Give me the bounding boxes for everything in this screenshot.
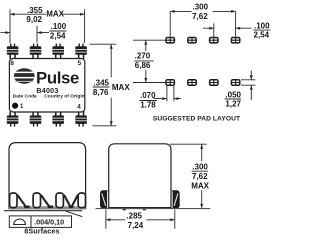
front view body [9,143,86,209]
side view body [109,144,171,208]
svg-text:.300: .300 [193,3,209,12]
pad row 2 pad 3 [210,80,218,85]
svg-text:.004/0,10: .004/0,10 [34,218,64,227]
bottom row pin 1 [7,112,19,127]
bottom row pin 4 [75,112,87,127]
top row pin 4 (pin 5) [75,44,87,59]
top row pin 2 [30,44,42,59]
pin 1 dot [12,103,18,109]
dim .070 fraction bar [140,100,158,102]
dim .345/8,76 MAX extension lines [90,44,117,126]
svg-text:1: 1 [20,103,24,110]
svg-text:MAX: MAX [46,9,64,18]
svg-text:2,54: 2,54 [50,31,66,40]
front leads 3-4 shared foot [69,206,73,209]
svg-text:.050: .050 [225,90,241,99]
side view right lead [171,190,180,208]
svg-text:2,54: 2,54 [254,31,270,40]
top view body [9,59,84,113]
dim .285/7,24 extension lines [106,210,175,229]
dim .100/2,54 arrows [1,32,50,34]
flatness leader diagonal [66,211,82,216]
svg-text:7,62: 7,62 [192,12,208,21]
svg-text:1,27: 1,27 [225,99,241,108]
dim .355/9,02 MAX extension lines [10,9,85,43]
pad row 1 pad 4 [231,38,239,43]
dim .050 fraction bar [225,98,241,100]
bottom row pin 3 [52,112,64,127]
svg-text:.285: .285 [126,212,142,221]
front lead 3 diagonal [64,195,70,207]
svg-text:Date Code: Date Code [13,93,37,99]
dim .345 fraction bar [93,86,110,88]
dim .050 arrows [250,71,252,101]
front lead 2 foot [48,206,53,209]
dim .270 fraction bar [134,60,154,62]
dim .070/1.78 extension lines [167,86,174,102]
dim .355/9,02 MAX dimension line with arrows [10,13,85,15]
front lead 1 bar [10,193,17,208]
svg-text:.355: .355 [27,6,43,15]
pad row 1 pad 2 [188,38,196,43]
dim .270/6,86 extension lines [133,40,166,82]
side seating plane line [96,208,211,210]
pad row 2 pad 2 [188,80,196,85]
svg-text:.270: .270 [135,51,151,60]
svg-text:8: 8 [10,60,14,67]
svg-text:7,24: 7,24 [128,221,144,230]
svg-text:6,86: 6,86 [135,61,151,70]
svg-text:Country of Origin: Country of Origin [44,93,84,99]
svg-text:7,62: 7,62 [192,172,208,181]
front view seating band (gray) [9,206,86,209]
side view left lead [100,190,109,208]
svg-text:MAX: MAX [112,83,130,92]
svg-text:.070: .070 [140,91,156,100]
front lead 2 diagonal [41,195,50,207]
front lead 2 bar [33,193,40,208]
pin 8 (top row pin 1) [7,44,19,59]
svg-text:9,02: 9,02 [26,15,42,24]
flatness callout box [9,216,71,228]
dim .100/2,54 (top view) extension line [36,26,38,43]
dim .100 (pad) fraction bar [253,29,270,31]
Pulse logo globe [14,68,35,83]
surface profile symbol [14,219,26,224]
svg-text:.100: .100 [51,22,67,31]
svg-text:8Surfaces: 8Surfaces [24,227,59,236]
side view standoff 2 [142,208,147,211]
front lead 4 bar [78,193,85,208]
dim .300/7,62 MAX dimension line with arrows [201,144,203,208]
front lead 1 diagonal [17,195,26,207]
dim .100/2,54 (pad layout) extension line [213,23,215,36]
front lead 3 bar [56,193,63,208]
pad row 1 pad 1 [166,38,174,43]
dim .345/8,76 MAX dimension line with arrows [110,44,112,126]
svg-text:SUGGESTED PAD LAYOUT: SUGGESTED PAD LAYOUT [153,115,241,122]
dim .050/1,27 extension lines [241,80,255,85]
flatness callout divider [30,216,32,228]
svg-text:.100: .100 [254,21,270,30]
pad row 1 pad 3 [210,38,218,43]
dim .300/7,62 dimension line with arrows [170,10,235,12]
front lead 4 diagonal [72,195,78,207]
svg-text:4: 4 [77,103,81,110]
svg-text:MAX: MAX [191,182,209,191]
svg-text:.300: .300 [192,163,208,172]
svg-text:5: 5 [78,60,82,67]
front seating plane line [4,210,82,212]
svg-text:Pulse: Pulse [36,69,79,88]
top row pin 3 [52,44,64,59]
svg-text:8,76: 8,76 [93,88,109,97]
dim .300/7,62 extension lines [170,11,235,36]
pad row 2 pad 1 [166,80,174,85]
svg-text:1.78: 1.78 [140,101,156,110]
dim .100 (pad) arrows [203,27,251,29]
dim .100 fraction bar [49,30,66,32]
side view standoff 1 [122,208,127,211]
bottom row pin 2 [30,112,42,127]
svg-text:.345: .345 [93,79,109,88]
dim .070 arrows [154,98,182,100]
pad row 2 pad 4 [231,80,239,85]
dim .285/7,24 dimension line with arrows [106,219,175,221]
front lead 1 foot [24,206,29,209]
dim .300 (side) fraction bar [192,170,209,172]
dim .300/7,62 MAX top extension line [170,143,207,145]
dim .270/6,86 dimension line with arrows [145,40,147,82]
